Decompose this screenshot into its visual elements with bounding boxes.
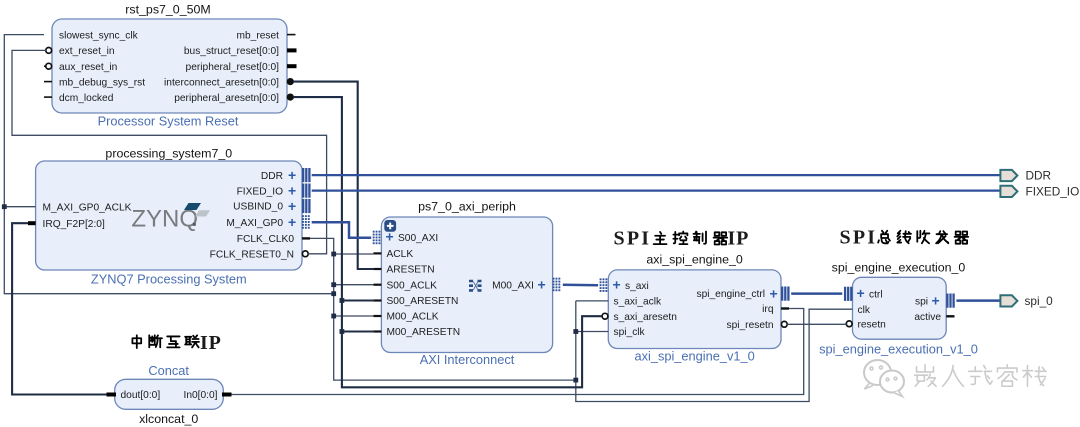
svg-text:spi_clk: spi_clk	[614, 327, 646, 338]
svg-text:IP: IP	[728, 227, 750, 249]
block axi_spi_engine_0	[608, 253, 781, 364]
svg-text:SPI: SPI	[840, 227, 878, 249]
svg-text:In0[0:0]: In0[0:0]	[184, 390, 218, 401]
svg-text:+: +	[288, 167, 296, 183]
svg-text:spi_engine_ctrl: spi_engine_ctrl	[696, 289, 765, 300]
svg-text:M_AXI_GP0_ACLK: M_AXI_GP0_ACLK	[43, 202, 132, 213]
ZYNQ logo	[131, 203, 210, 233]
svg-text:axi_spi_engine_0: axi_spi_engine_0	[646, 253, 743, 267]
pin resetn	[846, 320, 886, 331]
wire net FCLK_CLK0 clock: FCLK_CLK0 to ACLK S00_ACLK M00_ACLK s_axi_aclk spi_clk clk	[4, 35, 852, 402]
pin spi_engine_ctrl	[696, 285, 777, 301]
pin M00_AXI	[492, 277, 546, 293]
svg-text:S00_AXI: S00_AXI	[398, 233, 438, 244]
svg-text:spi_engine_execution_0: spi_engine_execution_0	[832, 261, 966, 275]
svg-text:S00_ARESETN: S00_ARESETN	[387, 296, 459, 307]
router icon	[469, 281, 482, 290]
pin In0[0:0]	[184, 390, 232, 401]
wire net spi_resetn to resetn	[787, 323, 846, 325]
block xlconcat_0	[115, 363, 224, 426]
connector spi (spi_engine_execution)	[946, 294, 948, 308]
svg-text:irq: irq	[762, 304, 774, 315]
wire net interconnect_aresetn to ARESETN	[293, 82, 373, 269]
pin ARESETN	[373, 265, 434, 276]
wire interface FIXED_IO	[312, 190, 1001, 192]
block spi_engine_execution_0	[819, 261, 978, 357]
svg-text:ZYNQ7 Processing System: ZYNQ7 Processing System	[91, 271, 247, 286]
svg-text:axi_spi_engine_v1_0: axi_spi_engine_v1_0	[634, 349, 754, 364]
pin ext_reset_in	[46, 46, 115, 57]
pin mb_reset	[237, 30, 296, 41]
pin USBIND_0	[233, 198, 296, 214]
pin dcm_locked	[44, 93, 114, 104]
heading SPI master controller IP (Chinese)	[614, 227, 750, 249]
svg-text:ACLK: ACLK	[387, 249, 414, 260]
svg-text:s_axi_aresetn: s_axi_aresetn	[614, 312, 677, 323]
pin S00_AXI	[386, 229, 439, 245]
heading SPI bus transceiver (Chinese)	[840, 227, 969, 249]
connector ctrl (spi_engine_execution)	[850, 287, 852, 301]
pin spi_resetn	[726, 320, 787, 331]
block processing_system7_0	[36, 147, 302, 287]
wire net irq to In0	[232, 309, 804, 395]
pin M00_ARESETN	[373, 327, 460, 338]
pin M00_ACLK	[373, 312, 438, 323]
pin aux_reset_in	[44, 62, 117, 73]
pin FIXED_IO	[237, 182, 297, 198]
svg-text:mb_reset: mb_reset	[237, 30, 280, 41]
wire net peripheral_aresetn to S00_ARESETN M00_ARESETN s_axi_aresetn	[293, 97, 602, 387]
svg-text:SPI: SPI	[614, 227, 652, 249]
svg-text:s_axi_aclk: s_axi_aclk	[614, 297, 662, 308]
watermark wechat logo	[864, 360, 904, 397]
svg-text:processing_system7_0: processing_system7_0	[105, 147, 232, 161]
svg-text:AXI Interconnect: AXI Interconnect	[420, 352, 515, 367]
svg-text:M00_ACLK: M00_ACLK	[387, 312, 439, 323]
watermark text (Chinese, embossed gray)	[915, 365, 1047, 386]
block ps7_0_axi_periph	[381, 200, 552, 368]
svg-text:dout[0:0]: dout[0:0]	[121, 390, 161, 401]
wire net dout to IRQ_F2P	[12, 223, 106, 394]
svg-text:FIXED_IO: FIXED_IO	[237, 186, 283, 197]
svg-text:mb_debug_sys_rst: mb_debug_sys_rst	[59, 77, 145, 88]
svg-text:FCLK_CLK0: FCLK_CLK0	[237, 234, 295, 245]
svg-text:xlconcat_0: xlconcat_0	[139, 412, 198, 426]
port spi_0	[1000, 294, 1053, 308]
port DDR	[1000, 169, 1051, 183]
svg-text:Concat: Concat	[148, 363, 189, 378]
svg-text:ARESETN: ARESETN	[387, 265, 435, 276]
heading interrupt interconnect IP (Chinese)	[132, 332, 221, 354]
svg-text:bus_struct_reset[0:0]: bus_struct_reset[0:0]	[184, 46, 279, 57]
pin ACLK	[373, 249, 413, 260]
svg-text:spi_0: spi_0	[1025, 294, 1054, 308]
pin dout[0:0]	[107, 390, 161, 401]
svg-text:spi_engine_execution_v1_0: spi_engine_execution_v1_0	[819, 342, 978, 357]
svg-text:+: +	[288, 198, 296, 214]
svg-text:active: active	[914, 312, 941, 323]
svg-text:+: +	[288, 214, 296, 230]
pin S00_ACLK	[373, 280, 437, 291]
pin FCLK_RESET0_N	[210, 250, 309, 261]
svg-text:peripheral_reset[0:0]: peripheral_reset[0:0]	[186, 62, 280, 73]
pin mb_debug_sys_rst	[44, 77, 145, 88]
svg-text:dcm_locked: dcm_locked	[59, 93, 114, 104]
wire net FCLK_RESET0_N to ext_reset_in	[12, 50, 327, 253]
pin active	[914, 312, 954, 323]
pin s_axi_aresetn	[602, 312, 677, 323]
svg-text:ext_reset_in: ext_reset_in	[59, 46, 115, 57]
pin IRQ_F2P[2:0]	[28, 219, 105, 230]
svg-text:clk: clk	[858, 305, 871, 316]
connector M_AXI_GP0 (PS7)	[302, 215, 310, 229]
pin peripheral_aresetn[0:0]	[174, 93, 293, 104]
wire interface M00_AXI to s_axi	[563, 283, 598, 286]
connector spi_engine_ctrl (axi_spi_engine)	[781, 287, 783, 301]
svg-text:Processor System Reset: Processor System Reset	[98, 114, 239, 129]
block rst_ps7_0_50M	[52, 3, 287, 129]
expand icon	[384, 220, 396, 232]
svg-text:interconnect_aresetn[0:0]: interconnect_aresetn[0:0]	[164, 77, 279, 88]
svg-text:FIXED_IO: FIXED_IO	[1026, 185, 1080, 199]
svg-text:spi_resetn: spi_resetn	[726, 320, 773, 331]
svg-text:aux_reset_in: aux_reset_in	[59, 62, 117, 73]
pin FCLK_CLK0	[237, 234, 310, 245]
svg-text:FCLK_RESET0_N: FCLK_RESET0_N	[210, 250, 294, 261]
svg-text:+: +	[932, 292, 940, 308]
pin DDR	[261, 167, 296, 183]
svg-text:+: +	[613, 277, 621, 293]
svg-text:peripheral_aresetn[0:0]: peripheral_aresetn[0:0]	[174, 93, 279, 104]
svg-text:s_axi: s_axi	[625, 281, 649, 292]
connector s_axi (axi_spi_engine)	[600, 278, 608, 292]
svg-text:+: +	[386, 229, 394, 245]
svg-text:IRQ_F2P[2:0]: IRQ_F2P[2:0]	[43, 219, 105, 230]
pin irq	[762, 304, 789, 315]
svg-text:S00_ACLK: S00_ACLK	[387, 280, 438, 291]
pin M_AXI_GP0	[226, 214, 296, 230]
svg-text:+: +	[288, 182, 296, 198]
wire interface DDR	[312, 174, 1001, 176]
pin ctrl	[857, 285, 883, 301]
connector DDR (PS7)	[302, 168, 304, 182]
svg-text:ps7_0_axi_periph: ps7_0_axi_periph	[418, 200, 516, 214]
svg-text:resetn: resetn	[858, 320, 886, 331]
connector S00_AXI (interconnect)	[373, 231, 381, 245]
svg-text:DDR: DDR	[1026, 169, 1052, 183]
svg-text:+: +	[770, 285, 778, 301]
pin s_axi	[613, 277, 649, 293]
port FIXED_IO	[1000, 185, 1079, 199]
wire interface spi_engine_ctrl to ctrl	[791, 292, 842, 295]
pin interconnect_aresetn[0:0]	[164, 77, 293, 88]
svg-text:IP: IP	[200, 332, 222, 354]
svg-text:M00_ARESETN: M00_ARESETN	[387, 327, 461, 338]
svg-text:+: +	[857, 285, 865, 301]
svg-text:DDR: DDR	[261, 171, 283, 182]
svg-text:USBIND_0: USBIND_0	[233, 202, 283, 213]
connector FIXED_IO (PS7)	[302, 184, 304, 198]
pin S00_ARESETN	[373, 296, 458, 307]
wire interface spi to spi_0	[956, 299, 1000, 302]
svg-text:ctrl: ctrl	[869, 290, 883, 301]
svg-text:slowest_sync_clk: slowest_sync_clk	[59, 30, 139, 41]
svg-text:M00_AXI: M00_AXI	[492, 280, 534, 291]
wire interface M_AXI_GP0 to S00_AXI	[312, 222, 372, 238]
pin bus_struct_reset[0:0]	[184, 46, 297, 57]
pin spi	[915, 292, 940, 308]
connector USBIND_0 (PS7)	[302, 199, 304, 213]
connector M00_AXI (interconnect)	[553, 278, 561, 291]
pin peripheral_reset[0:0]	[186, 62, 297, 73]
junction dots	[2, 204, 578, 382]
svg-text:M_AXI_GP0: M_AXI_GP0	[226, 218, 283, 229]
svg-text:+: +	[538, 277, 546, 293]
svg-text:rst_ps7_0_50M: rst_ps7_0_50M	[125, 3, 210, 17]
svg-text:spi: spi	[915, 296, 928, 307]
